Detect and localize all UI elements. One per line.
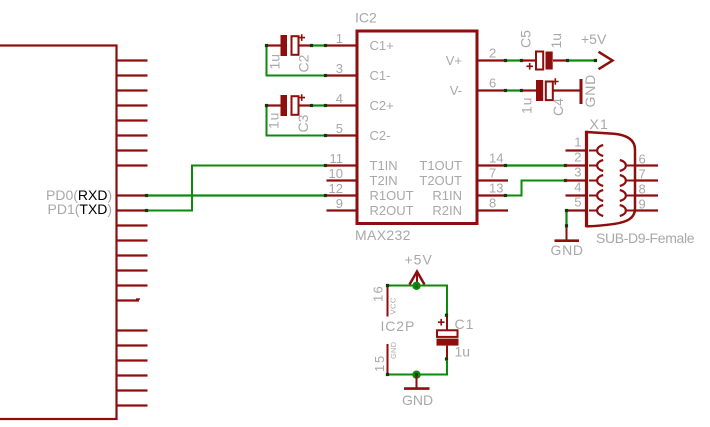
- svg-text:VCC: VCC: [389, 297, 398, 314]
- svg-text:C2+: C2+: [370, 98, 394, 113]
- junction pin6: [504, 89, 507, 92]
- junction +5V: [594, 59, 597, 62]
- junction C5 right: [566, 59, 569, 62]
- svg-text:C1+: C1+: [370, 38, 394, 53]
- svg-text:+5V: +5V: [405, 252, 433, 268]
- svg-text:1u: 1u: [548, 33, 564, 49]
- IC2 pin 12: [327, 181, 358, 196]
- capacitor C5: [522, 52, 568, 70]
- junction C4 left: [520, 89, 523, 92]
- junction C2 right: [310, 44, 313, 47]
- X1 contact 5: [589, 205, 603, 216]
- svg-text:13: 13: [489, 181, 503, 196]
- svg-text:3: 3: [336, 61, 343, 76]
- wire +5V rail to C1: [388, 286, 447, 315]
- IC2 pin 11: [327, 151, 358, 166]
- X1 contact 8: [620, 190, 634, 201]
- junction GND lead: [565, 224, 568, 227]
- IC2 pin 5: [327, 121, 358, 136]
- IC2 pin 8: [477, 196, 508, 211]
- junction pin14: [504, 164, 507, 167]
- svg-text:1u: 1u: [266, 112, 282, 129]
- X1 pin 9 stub: [635, 197, 658, 212]
- connector X1 D-shell outline: [587, 132, 636, 226]
- svg-text:2: 2: [574, 150, 581, 165]
- svg-text:R1OUT: R1OUT: [370, 188, 414, 203]
- svg-text:V+: V+: [446, 53, 462, 68]
- svg-text:GND: GND: [551, 242, 584, 258]
- svg-text:T2IN: T2IN: [370, 173, 398, 188]
- junction pin3: [324, 74, 327, 77]
- op-amp-ic IC2 MAX232 box: [357, 31, 477, 224]
- junction pin1: [324, 44, 327, 47]
- IC2P pin 16 vcc: [371, 285, 398, 317]
- X1 contact 7: [620, 175, 634, 186]
- microcontroller pin at y=135.5: [117, 134, 148, 136]
- IC2 pin 13: [477, 181, 506, 196]
- junction C3 right: [310, 104, 313, 107]
- wire T1OUT to X1 pin2: [506, 164, 565, 166]
- ground symbol below X1: [555, 227, 580, 241]
- svg-text:1u: 1u: [267, 54, 283, 70]
- svg-text:4: 4: [336, 91, 343, 106]
- svg-text:C2: C2: [296, 54, 312, 72]
- junction C3 left: [265, 104, 268, 107]
- junction C1 bottom: [445, 357, 448, 360]
- X1 pin 3 stub: [566, 165, 588, 181]
- svg-text:IC2: IC2: [355, 10, 377, 26]
- microcontroller IC (partial, left): [0, 46, 117, 420]
- junction pin2: [504, 59, 507, 62]
- junction C2 left: [265, 44, 268, 47]
- svg-text:7: 7: [639, 167, 646, 182]
- junction C5 left: [520, 59, 523, 62]
- svg-text:9: 9: [639, 197, 646, 212]
- svg-text:14: 14: [489, 151, 503, 166]
- X1 contact 2: [589, 160, 603, 171]
- wire C1 to GND rail: [388, 360, 447, 375]
- X1 pin 2 stub: [566, 150, 588, 166]
- IC2 pin 9: [327, 196, 358, 211]
- IC2 pin 10: [327, 166, 358, 181]
- microcontroller pin at y=360.5: [117, 359, 148, 361]
- X1 pin 6 stub: [635, 152, 658, 167]
- junction pin4: [324, 104, 327, 107]
- svg-text:MAX232: MAX232: [355, 227, 411, 243]
- microcontroller pin at y=375.5: [117, 374, 148, 376]
- microcontroller pin at y=225.5: [117, 224, 148, 226]
- X1 contact 6: [620, 160, 634, 171]
- junction circle top: [412, 282, 420, 290]
- svg-text:C3: C3: [295, 114, 311, 132]
- X1 pin 5 stub: [567, 195, 588, 211]
- junction X1 pin5: [565, 209, 568, 212]
- wire PD0 to R1OUT: [148, 194, 327, 196]
- svg-text:12: 12: [329, 181, 343, 196]
- svg-text:1u: 1u: [518, 96, 534, 114]
- junction PD1 pin: [145, 209, 148, 212]
- junction T1IN pin: [324, 164, 327, 167]
- microcontroller pin at y=240.5: [117, 239, 148, 241]
- C5 plus sign: [526, 63, 533, 70]
- IC2 pin 1: [327, 31, 358, 46]
- svg-text:5: 5: [336, 121, 343, 136]
- microcontroller pin at y=270.5: [117, 269, 148, 271]
- supply +5V arrow (right): [599, 52, 613, 69]
- microcontroller pin at y=90.5: [117, 89, 148, 91]
- junction pin5: [324, 134, 327, 137]
- X1 contact 9: [620, 205, 634, 216]
- svg-text:T1OUT: T1OUT: [419, 158, 462, 173]
- junction circle bottom: [412, 371, 420, 379]
- junction C1 top: [445, 314, 448, 317]
- wire C2- down and to IC2 pin 3: [267, 46, 327, 76]
- svg-text:C1: C1: [455, 316, 475, 332]
- junction IC2P pin16: [386, 284, 389, 287]
- microcontroller pin at y=150.5: [117, 149, 148, 151]
- wire C3+ to IC2 pin 4: [312, 104, 326, 106]
- svg-text:T2OUT: T2OUT: [419, 173, 462, 188]
- svg-text:1: 1: [574, 135, 581, 150]
- IC2 pin 4: [327, 91, 358, 106]
- X1 contact 4: [589, 190, 603, 201]
- svg-text:8: 8: [489, 196, 496, 211]
- supply +5V arrow up (IC2P): [410, 272, 425, 288]
- microcontroller pin at y=255.5: [117, 254, 148, 256]
- svg-text:1: 1: [336, 31, 343, 46]
- svg-text:R1IN: R1IN: [432, 188, 462, 203]
- svg-text:C4: C4: [550, 98, 566, 116]
- X1 pin 4 stub: [566, 180, 588, 196]
- svg-text:3: 3: [574, 165, 581, 180]
- microcontroller pin at y=105.5: [117, 104, 148, 106]
- C1 plus sign: [438, 319, 445, 326]
- microcontroller pin at y=405.5: [117, 404, 148, 406]
- microcontroller pin at y=330.5: [117, 329, 148, 331]
- wire X1 pin5 to GND: [565, 212, 567, 226]
- X1 pin 8 stub: [635, 182, 658, 197]
- wire PD1 to T1IN: [148, 166, 327, 211]
- svg-text:R2IN: R2IN: [432, 203, 462, 218]
- svg-text:1u: 1u: [455, 344, 471, 360]
- svg-text:+5V: +5V: [581, 31, 607, 47]
- C4 plus sign: [552, 78, 559, 85]
- svg-text:IC2P: IC2P: [381, 318, 416, 334]
- svg-text:PD1(TXD): PD1(TXD): [48, 201, 113, 217]
- svg-text:7: 7: [489, 166, 496, 181]
- svg-text:GND: GND: [389, 341, 398, 359]
- svg-text:10: 10: [329, 166, 343, 181]
- svg-text:V-: V-: [450, 83, 462, 98]
- svg-text:T1IN: T1IN: [370, 158, 398, 173]
- svg-text:16: 16: [371, 285, 386, 302]
- svg-text:GND: GND: [402, 392, 433, 408]
- microcontroller pin at y=285.5: [117, 284, 148, 286]
- junction X1 pin2: [564, 164, 567, 167]
- X1 pin 1 stub: [566, 135, 588, 151]
- svg-text:GND: GND: [582, 74, 598, 108]
- capacitor C4: [522, 80, 580, 101]
- IC2 pin 3: [327, 61, 358, 76]
- IC2 pin 7: [477, 166, 508, 181]
- microcontroller pin at y=120.5: [117, 119, 148, 121]
- junction X1 pin3: [564, 179, 567, 182]
- capacitor C2: [268, 35, 312, 56]
- svg-text:6: 6: [489, 76, 496, 91]
- wire C3- down and to IC2 pin 5: [267, 106, 327, 136]
- ground symbol right (rotated): [580, 79, 583, 104]
- svg-text:R2OUT: R2OUT: [370, 203, 414, 218]
- microcontroller pin at y=165.5: [117, 164, 148, 166]
- IC2P pin 15 gnd: [372, 341, 398, 373]
- microcontroller pin at y=390.5: [117, 389, 148, 391]
- wire C5 to +5V: [568, 59, 596, 61]
- svg-text:C2-: C2-: [370, 128, 391, 143]
- svg-text:C5: C5: [518, 30, 534, 48]
- svg-text:9: 9: [336, 196, 343, 211]
- capacitor C3: [268, 95, 312, 116]
- pin PD1(TXD): [117, 209, 148, 211]
- capacitor C1: [437, 316, 459, 359]
- microcontroller pin at y=60.5: [117, 59, 148, 61]
- X1 pin 7 stub: [635, 167, 658, 182]
- junction R1OUT pin: [324, 194, 327, 197]
- svg-text:15: 15: [372, 354, 387, 372]
- svg-text:C1-: C1-: [370, 68, 391, 83]
- wire V- to C4: [506, 89, 522, 91]
- X1 contact 3: [589, 175, 603, 186]
- microcontroller pin at y=345.5: [117, 344, 148, 346]
- svg-text:4: 4: [574, 180, 581, 195]
- svg-text:8: 8: [639, 182, 646, 197]
- wire C2+ to IC2 pin 1: [312, 44, 326, 46]
- svg-text:5: 5: [574, 195, 581, 210]
- svg-text:11: 11: [330, 151, 344, 166]
- wire V+ to C5: [506, 59, 522, 61]
- IC2 pin 6: [477, 76, 506, 91]
- connector X1 left bar: [585, 131, 588, 228]
- svg-text:6: 6: [639, 152, 646, 167]
- junction PD0 pin: [145, 194, 148, 197]
- wire R1IN to X1 pin3: [506, 181, 565, 196]
- X1 contact 1: [589, 145, 603, 156]
- C3 plus sign: [298, 94, 305, 101]
- IC2 pin 14: [477, 151, 506, 166]
- svg-text:2: 2: [489, 46, 496, 61]
- microcontroller pin at y=75.5: [117, 74, 148, 76]
- pin PD0(RXD): [117, 194, 148, 196]
- ground symbol bottom: [404, 375, 430, 389]
- svg-text:X1: X1: [590, 116, 610, 132]
- svg-text:SUB-D9-Female: SUB-D9-Female: [596, 230, 695, 246]
- junction pin13: [504, 194, 507, 197]
- microcontroller short pin: [117, 299, 141, 301]
- IC2 pin 2: [477, 46, 506, 61]
- junction IC2P pin15: [386, 373, 389, 376]
- C2 plus sign: [298, 34, 305, 41]
